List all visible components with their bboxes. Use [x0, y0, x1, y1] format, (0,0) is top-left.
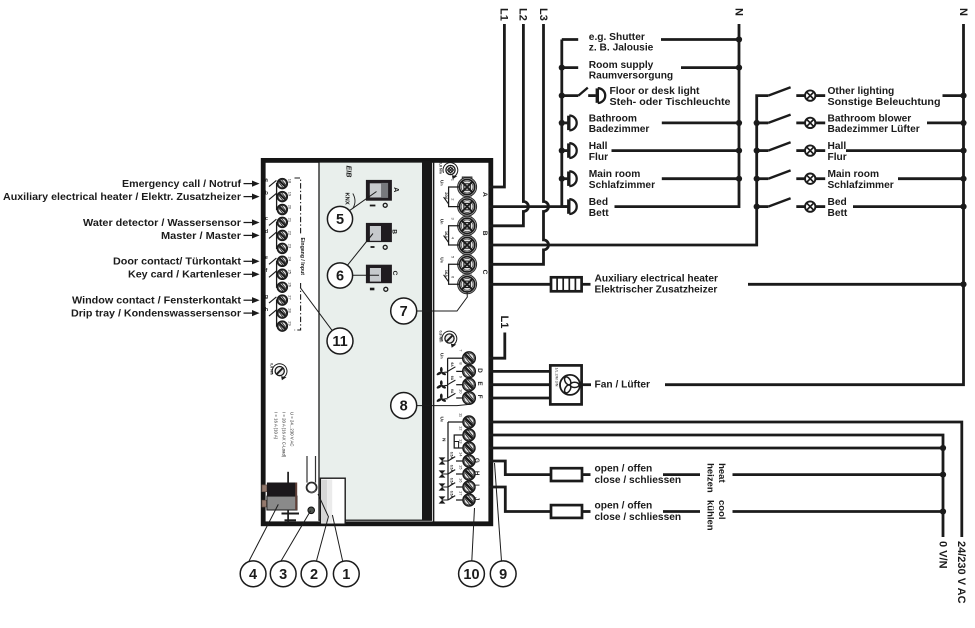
- lamp branch Bathroom blower: [754, 113, 967, 135]
- terminal screw 21: [277, 217, 287, 227]
- wire heater to right N: [748, 283, 964, 286]
- svg-text:Schlafzimmer: Schlafzimmer: [589, 180, 655, 191]
- svg-text:6A: 6A: [450, 389, 454, 394]
- input terminal bracket group c/d: [277, 222, 279, 248]
- svg-text:I = 20 A (16 AX C-Load): I = 20 A (16 AX C-Load): [281, 412, 286, 458]
- wire terminal 12 (N) to 0V/N: [489, 435, 943, 537]
- svg-text:h: h: [265, 307, 268, 313]
- svg-text:6A: 6A: [450, 362, 454, 367]
- fan speed contact 2 (6A): [436, 376, 463, 390]
- wire output C to heater: [489, 283, 551, 286]
- callout lines 6: [347, 234, 379, 276]
- svg-text:11: 11: [332, 334, 347, 350]
- svg-text:18: 18: [287, 179, 292, 184]
- svg-text:16A: 16A: [444, 270, 449, 277]
- output pair A wiring bracket: [438, 179, 459, 207]
- svg-text:Fan / Lüfter: Fan / Lüfter: [595, 380, 650, 391]
- svg-text:heizen: heizen: [704, 463, 715, 493]
- input contact d: [269, 232, 276, 238]
- branch e.g. Shutter: [562, 32, 742, 54]
- input terminal bracket group g/h: [277, 300, 279, 326]
- terminal screw 29: [277, 321, 287, 331]
- svg-text:U = 24...230 V AC: U = 24...230 V AC: [289, 412, 294, 447]
- callout line 4: [249, 504, 279, 561]
- svg-text:L1: L1: [498, 316, 510, 329]
- svg-text:N: N: [732, 8, 744, 16]
- wire Main room to N: [662, 177, 739, 180]
- valve terminal screw 12: [463, 429, 475, 441]
- svg-text:c: c: [265, 216, 268, 222]
- svg-text:14: 14: [458, 452, 463, 457]
- svg-text:13: 13: [458, 439, 463, 444]
- svg-text:17: 17: [458, 491, 463, 496]
- svg-text:Water detector / Wassersensor: Water detector / Wassersensor: [83, 218, 241, 229]
- input contact g: [269, 297, 276, 303]
- fan terminal screw 9: [463, 378, 476, 391]
- heat valve (G) label: [582, 464, 700, 487]
- input terminal bracket group a/b: [277, 184, 279, 210]
- switch C position marks: [370, 287, 388, 291]
- svg-text:0,5A: 0,5A: [450, 452, 454, 459]
- valve actuator contact 2 (0,5A): [439, 465, 463, 478]
- svg-text:I = 16 A (10 A): I = 16 A (10 A): [273, 412, 278, 440]
- fan motor M1: [550, 365, 581, 404]
- svg-text:5: 5: [336, 212, 344, 228]
- svg-text:heat: heat: [716, 463, 727, 483]
- svg-text:EIB: EIB: [345, 166, 354, 178]
- svg-text:z. B. Jalousie: z. B. Jalousie: [589, 43, 654, 54]
- svg-text:KNX: KNX: [344, 193, 350, 205]
- svg-text:6: 6: [336, 269, 344, 285]
- input terminal bracket group e/f: [277, 261, 279, 287]
- svg-text:0 V/N: 0 V/N: [936, 541, 948, 569]
- lamp supply bus (from output B): [489, 96, 768, 245]
- switch A position marks: [370, 203, 387, 207]
- left N line: [615, 24, 740, 207]
- input label Key card: [128, 270, 260, 281]
- svg-text:Sonstige Beleuchtung: Sonstige Beleuchtung: [828, 97, 941, 108]
- svg-text:16A: 16A: [444, 231, 449, 238]
- branch socket Hall: [559, 141, 608, 163]
- socket supply bus (from output A): [560, 40, 563, 207]
- cool valve (I) label: [582, 501, 700, 524]
- svg-text:B: B: [391, 229, 398, 234]
- branch socket Bathroom: [559, 113, 650, 135]
- svg-text:19: 19: [287, 192, 292, 197]
- svg-text:Raumversorgung: Raumversorgung: [589, 71, 673, 82]
- callout 1: [333, 561, 359, 587]
- terminal screw 28: [277, 308, 287, 318]
- svg-text:close / schliessen: close / schliessen: [595, 475, 682, 486]
- torque screw top right 0,8 Nm: [439, 162, 458, 179]
- rocker switch C: [366, 265, 392, 284]
- callout 2: [301, 561, 327, 587]
- input label Window contact: [72, 296, 260, 307]
- wire cool valve (I): [489, 487, 551, 512]
- svg-text:Auxiliary electrical heater /: Auxiliary electrical heater / Elektr. Zu…: [3, 192, 241, 203]
- cool valve (I) actuator box: [551, 505, 582, 518]
- svg-text:Bett: Bett: [589, 208, 609, 219]
- svg-text:Steh- oder Tischleuchte: Steh- oder Tischleuchte: [610, 97, 731, 108]
- svg-text:Badezimmer: Badezimmer: [589, 124, 650, 135]
- torque screw middle right 0,8 Nm: [439, 331, 457, 348]
- svg-text:e.g. Shutter: e.g. Shutter: [589, 32, 645, 43]
- vertical labels kühlen/cool: [704, 500, 727, 531]
- svg-text:8: 8: [400, 399, 408, 415]
- wires terminals 8-10 to fan: [489, 370, 550, 373]
- svg-text:Bett: Bett: [828, 208, 848, 219]
- device U1 room controller outer case: [263, 160, 491, 523]
- valve terminal screw 13: [463, 442, 475, 454]
- svg-text:Bed: Bed: [828, 197, 847, 208]
- svg-text:D: D: [476, 368, 483, 373]
- callout line 3: [281, 511, 311, 562]
- svg-text:H: H: [473, 471, 480, 476]
- valve terminal screw 17: [463, 494, 475, 506]
- callout 3: [270, 561, 296, 587]
- callout 6: [327, 263, 352, 288]
- input label Auxiliary electrical heater: [3, 192, 260, 203]
- branch Floor or desk light (switch + socket): [559, 86, 731, 108]
- svg-text:10: 10: [463, 567, 479, 583]
- output terminal screw 3: [460, 218, 475, 233]
- input contact b: [269, 193, 276, 199]
- svg-text:g: g: [265, 294, 268, 300]
- output terminal screw 6: [460, 277, 475, 292]
- branch socket Main room: [559, 169, 655, 191]
- right N line: [665, 24, 964, 385]
- KNX bus connector terminal: [262, 472, 299, 524]
- svg-text:26: 26: [287, 282, 292, 287]
- lead from terminal 6 to callout 7: [417, 292, 468, 311]
- svg-text:a: a: [265, 177, 268, 183]
- input label Emergency call: [122, 179, 260, 190]
- valve terminal screw 15: [463, 468, 475, 480]
- callout 5: [327, 206, 352, 231]
- valve terminal screw 14: [463, 455, 475, 467]
- svg-text:0,8 Nm: 0,8 Nm: [439, 162, 443, 174]
- lead from terminal 10 to callout 8: [417, 404, 469, 405]
- fan terminal screw 10: [463, 392, 476, 405]
- fan terminal screw 8: [463, 365, 476, 378]
- svg-text:20: 20: [287, 205, 292, 210]
- valve terminal screw 16: [463, 481, 475, 493]
- output pair C wiring bracket: [438, 256, 459, 284]
- input label Door contact: [113, 257, 260, 268]
- heater element R1: [551, 277, 582, 291]
- svg-text:29: 29: [287, 321, 292, 326]
- inner divider line: [433, 162, 435, 522]
- svg-text:3: 3: [279, 567, 287, 583]
- input label Drip tray: [71, 309, 260, 320]
- KNX logo: [344, 193, 356, 209]
- switch B position marks: [371, 245, 388, 249]
- branch Room supply: [559, 60, 742, 82]
- svg-text:24/230 V AC: 24/230 V AC: [955, 541, 967, 604]
- terminal screw 27: [277, 295, 287, 305]
- svg-text:L1: L1: [498, 8, 510, 21]
- valve terminal screw 11: [463, 416, 475, 428]
- svg-text:23: 23: [287, 244, 292, 249]
- input contact h: [269, 310, 276, 316]
- svg-text:N: N: [440, 438, 446, 442]
- svg-text:20A: 20A: [444, 192, 449, 199]
- svg-text:4: 4: [249, 567, 257, 583]
- svg-text:I: I: [473, 484, 480, 486]
- output terminal strip A-C: [458, 177, 477, 294]
- fan speed contact 1 (6A): [436, 362, 463, 376]
- svg-text:10: 10: [459, 389, 464, 394]
- svg-text:Bathroom: Bathroom: [589, 113, 637, 124]
- svg-text:16: 16: [458, 478, 463, 483]
- callout 8: [391, 393, 417, 419]
- terminal screw 26: [277, 282, 287, 292]
- callout 11: [327, 328, 353, 354]
- front panel (green fascia): [319, 162, 431, 520]
- callout 4: [240, 561, 266, 587]
- svg-text:Key card / Kartenleser: Key card / Kartenleser: [128, 270, 241, 281]
- svg-text:J: J: [473, 497, 480, 501]
- wire terminal 11 (Un) to 24/230V: [489, 422, 962, 537]
- valve actuator contact 4 (0,5A): [439, 491, 463, 504]
- svg-text:A: A: [392, 187, 399, 192]
- wire Hall to N: [612, 149, 740, 152]
- input contact a: [269, 180, 276, 186]
- svg-text:2: 2: [310, 567, 318, 583]
- input contact c: [269, 219, 276, 225]
- svg-text:0,8 Nm: 0,8 Nm: [269, 363, 273, 375]
- svg-text:Eingang / Input: Eingang / Input: [299, 238, 305, 276]
- svg-text:6A: 6A: [450, 376, 454, 381]
- callout line 2: [317, 494, 329, 560]
- output terminal screw 2: [460, 199, 475, 214]
- svg-text:Floor or desk light: Floor or desk light: [610, 86, 701, 97]
- svg-text:21: 21: [287, 218, 292, 223]
- svg-text:Window contact / Fensterkontak: Window contact / Fensterkontakt: [72, 296, 242, 307]
- output terminal screw 5: [460, 257, 475, 272]
- callout 9: [490, 561, 516, 587]
- svg-text:d: d: [265, 229, 268, 235]
- lamp branch Hall: [754, 141, 967, 163]
- fan terminal screw 7: [463, 352, 476, 365]
- lamp branch Other lighting: [768, 86, 966, 108]
- svg-text:B: B: [481, 231, 488, 236]
- svg-text:close / schliessen: close / schliessen: [595, 512, 682, 523]
- valve output Un bracket: [439, 417, 463, 501]
- heat valve (G) actuator box: [551, 468, 582, 481]
- lamp branch Bed: [754, 197, 967, 219]
- torque screw left 0,8 Nm: [269, 363, 287, 380]
- programming button: [307, 456, 317, 493]
- svg-text:Flur: Flur: [589, 152, 608, 163]
- terminal screw 25: [277, 269, 287, 279]
- fan speed contact 3 (6A): [436, 389, 463, 403]
- fan output wiring Un bracket: [438, 353, 462, 398]
- svg-text:f: f: [266, 268, 268, 274]
- wire terminal 13 to 0V/N: [489, 447, 943, 450]
- svg-text:0,5A: 0,5A: [450, 465, 454, 472]
- svg-text:A: A: [481, 192, 488, 197]
- wire Bathroom to N: [662, 122, 739, 125]
- svg-text:G: G: [473, 458, 480, 463]
- output terminal screw 1: [460, 179, 475, 194]
- rocker switch B: [366, 223, 392, 242]
- input label Master: [161, 231, 260, 242]
- svg-text:25: 25: [287, 270, 292, 275]
- svg-text:Hall: Hall: [828, 141, 847, 152]
- svg-text:Badezimmer Lüfter: Badezimmer Lüfter: [828, 124, 920, 135]
- svg-text:22: 22: [287, 231, 292, 236]
- svg-text:9: 9: [499, 567, 507, 583]
- vertical labels heizen/heat: [704, 463, 727, 493]
- wire L2 to terminal 3 (hops over A wire): [489, 24, 528, 226]
- output terminal screw 4: [460, 237, 475, 252]
- svg-text:0,5A: 0,5A: [450, 478, 454, 485]
- wire fan to label: [582, 383, 591, 386]
- svg-text:b: b: [265, 190, 268, 196]
- svg-text:12: 12: [458, 426, 463, 431]
- svg-text:Flur: Flur: [828, 152, 847, 163]
- callout line 1: [332, 515, 342, 561]
- wire output A to socket bus: [489, 205, 567, 208]
- svg-text:Auxiliary electrical heater: Auxiliary electrical heater: [595, 274, 718, 285]
- callout line 10: [472, 508, 475, 561]
- valve actuator contact 1 (0,5A): [439, 452, 463, 465]
- svg-text:Drip tray / Kondenswassersenso: Drip tray / Kondenswassersensor: [71, 309, 241, 320]
- svg-text:kühlen: kühlen: [704, 500, 715, 531]
- terminal screw 23: [277, 243, 287, 253]
- wire heat valve (G) to 0V/N: [733, 473, 944, 476]
- svg-text:1/L 2/M 3/N: 1/L 2/M 3/N: [555, 368, 559, 387]
- svg-text:15: 15: [458, 465, 463, 470]
- wire heater to label: [582, 283, 591, 286]
- svg-text:7: 7: [400, 304, 408, 320]
- input contact f: [269, 271, 276, 277]
- svg-text:Bathroom blower: Bathroom blower: [828, 113, 912, 124]
- rocker switch A: [366, 180, 392, 201]
- wire cool valve (I) to 0V/N: [733, 510, 944, 513]
- callout line 11: [300, 288, 332, 331]
- svg-text:e: e: [265, 255, 268, 261]
- N bridge terminals 12/13: [440, 435, 463, 448]
- branch socket Bed: [562, 197, 609, 219]
- terminal screw 20: [277, 205, 287, 215]
- svg-text:L3: L3: [537, 8, 549, 21]
- svg-text:Main room: Main room: [828, 169, 880, 180]
- terminal screw 24: [277, 256, 287, 266]
- terminal screw 18: [277, 179, 287, 189]
- svg-text:open / offen: open / offen: [595, 501, 653, 512]
- svg-text:28: 28: [287, 308, 292, 313]
- svg-text:Hall: Hall: [589, 141, 608, 152]
- svg-text:E: E: [476, 382, 483, 386]
- wire L1 to terminal 7: [489, 333, 505, 359]
- input label Water detector: [83, 218, 260, 229]
- svg-text:Elektrischer Zusatzheizer: Elektrischer Zusatzheizer: [595, 285, 718, 296]
- svg-text:L2: L2: [517, 8, 529, 21]
- callout 10: [459, 561, 485, 587]
- svg-text:1: 1: [342, 567, 350, 583]
- callout line 5: [349, 192, 377, 212]
- svg-text:24: 24: [287, 257, 292, 262]
- input contact e: [269, 258, 276, 264]
- svg-text:C: C: [481, 270, 488, 275]
- svg-text:Door contact/ Türkontakt: Door contact/ Türkontakt: [113, 257, 242, 268]
- svg-text:N: N: [957, 8, 969, 16]
- svg-text:C: C: [391, 271, 398, 276]
- svg-text:Room supply: Room supply: [589, 60, 654, 71]
- callout line 9: [495, 463, 502, 561]
- wire heat valve (G): [489, 461, 551, 475]
- terminal screw 19: [277, 192, 287, 202]
- wire L1 to terminal 1: [489, 24, 504, 187]
- svg-text:F: F: [476, 395, 483, 399]
- svg-text:27: 27: [287, 295, 292, 300]
- svg-text:Schlafzimmer: Schlafzimmer: [828, 180, 894, 191]
- svg-text:0,8 Nm: 0,8 Nm: [439, 331, 443, 343]
- output pair B wiring bracket: [438, 218, 459, 246]
- label holder: [320, 478, 345, 524]
- svg-text:cool: cool: [716, 500, 727, 520]
- svg-text:Master / Master: Master / Master: [161, 231, 241, 242]
- svg-text:open / offen: open / offen: [595, 464, 653, 475]
- panel shadow stripe: [422, 162, 431, 520]
- svg-text:Emergency call / Notruf: Emergency call / Notruf: [122, 179, 242, 190]
- valve actuator contact 3 (0,5A): [439, 478, 463, 491]
- wire L3 to terminal 5 (hops over A and B wires): [489, 24, 548, 264]
- svg-text:0,5A: 0,5A: [450, 491, 454, 498]
- svg-text:Other lighting: Other lighting: [828, 86, 895, 97]
- programming LED: [308, 507, 315, 514]
- terminal screw 22: [277, 230, 287, 240]
- svg-text:Bed: Bed: [589, 197, 608, 208]
- label Auxiliary electrical heater: [595, 274, 718, 296]
- input group dash-dot boundary (Eingang/Input): [295, 178, 301, 235]
- svg-text:Main room: Main room: [589, 169, 641, 180]
- lamp branch Main room: [754, 169, 967, 191]
- callout 7: [391, 298, 417, 324]
